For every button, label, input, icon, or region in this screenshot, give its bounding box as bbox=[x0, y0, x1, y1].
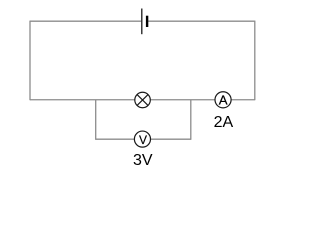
svg-text:2A: 2A bbox=[214, 114, 234, 131]
lamp L1 circle bbox=[135, 92, 151, 108]
svg-text:3V: 3V bbox=[133, 152, 153, 169]
battery cell: long positive plate bbox=[141, 9, 143, 35]
lamp L1 cross bbox=[137, 95, 148, 106]
wire middle center segment bbox=[151, 99, 215, 101]
wire left vertical bbox=[29, 21, 31, 101]
wire bottom-left segment bbox=[96, 138, 135, 140]
ammeter U1 circle bbox=[215, 92, 231, 108]
svg-text:A: A bbox=[219, 92, 228, 107]
wire top-left segment bbox=[30, 20, 141, 22]
wire middle left segment bbox=[30, 99, 135, 101]
wire middle right segment bbox=[231, 99, 254, 101]
battery cell: short thick negative plate bbox=[146, 16, 148, 27]
svg-text:V: V bbox=[139, 133, 147, 147]
wire voltmeter-branch right vertical bbox=[190, 100, 192, 140]
wire voltmeter-branch left vertical bbox=[95, 100, 97, 140]
wire right vertical bbox=[254, 21, 256, 101]
wire bottom-right segment bbox=[151, 138, 191, 140]
voltmeter U2 circle bbox=[134, 131, 150, 147]
wire top-right segment bbox=[148, 20, 255, 22]
